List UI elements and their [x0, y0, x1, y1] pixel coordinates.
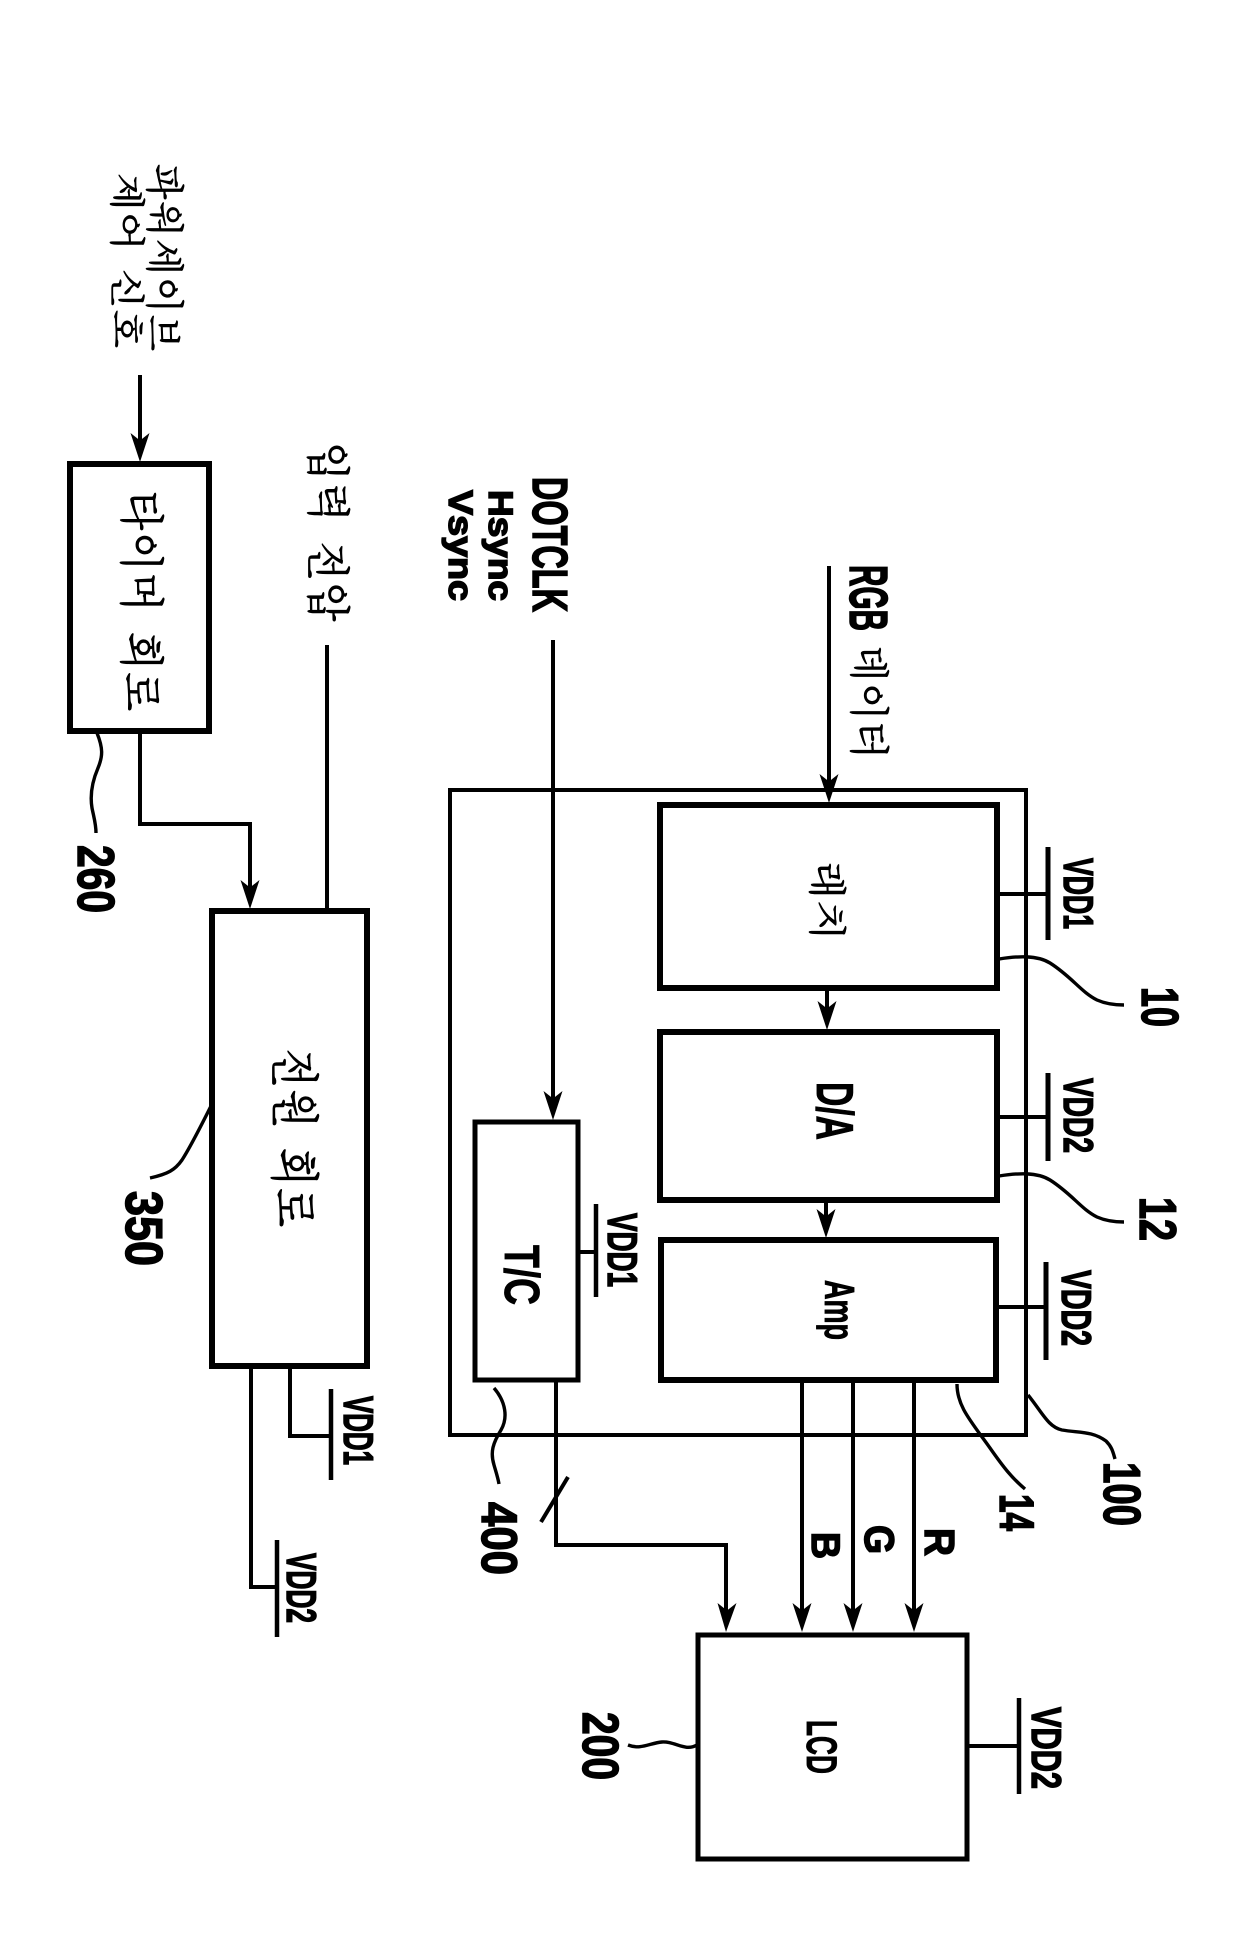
svg-text:VDD1: VDD1 — [1055, 858, 1102, 929]
wire: power save signal arrow into timer — [138, 375, 142, 448]
svg-text:RGB: RGB — [838, 565, 898, 631]
wire: T/C output to LCD — [556, 1380, 726, 1618]
svg-text:LCD: LCD — [797, 1720, 845, 1774]
tc vdd1 wire — [578, 1250, 596, 1254]
amp vdd2 bar — [1044, 1262, 1049, 1360]
amp vdd2 wire — [996, 1305, 1046, 1309]
svg-text:VDD2: VDD2 — [1055, 1078, 1102, 1153]
bus slash on T/C output — [541, 1477, 568, 1522]
leader for label 260 — [91, 733, 101, 833]
wire: R line from Amp to LCD — [912, 1380, 916, 1618]
leader for label 400 — [492, 1388, 505, 1484]
wire: DOTCLK arrow into T/C — [551, 640, 555, 1108]
svg-text:100: 100 — [1092, 1462, 1150, 1526]
text: input voltage label — [307, 446, 350, 621]
wire: B line from Amp to LCD — [800, 1380, 804, 1618]
latch vdd1 bar — [1046, 847, 1051, 940]
svg-text:260: 260 — [66, 845, 124, 913]
svg-text:200: 200 — [572, 1712, 629, 1780]
wire: input voltage into power circuit — [325, 645, 329, 911]
block: timer circuit box 260 — [70, 464, 209, 731]
svg-text:DOTCLK: DOTCLK — [522, 477, 576, 612]
power vdd1 wire — [290, 1366, 329, 1436]
svg-text:Hsync: Hsync — [481, 490, 519, 601]
text: data of RGB label — [850, 648, 889, 753]
leader for label 10 — [999, 957, 1124, 1005]
svg-text:12: 12 — [1128, 1197, 1186, 1241]
svg-text:G: G — [856, 1525, 903, 1554]
wire: D/A to Amp arrow — [824, 1200, 828, 1226]
block: latch box 10 — [660, 805, 997, 988]
wire: timer to power circuit — [140, 731, 250, 896]
wire: G line from Amp to LCD — [851, 1380, 855, 1618]
leader for label 200 — [628, 1742, 697, 1747]
lcd vdd2 wire — [967, 1744, 1017, 1748]
svg-text:400: 400 — [471, 1502, 527, 1575]
svg-text:VDD2: VDD2 — [1023, 1707, 1070, 1789]
power vdd1 bar — [329, 1389, 334, 1480]
wire: RGB data arrow into latch — [827, 566, 831, 790]
tc vdd1 bar — [594, 1204, 599, 1297]
svg-text:VDD2: VDD2 — [1053, 1270, 1100, 1346]
block: driver IC outline box 100 — [450, 790, 1026, 1435]
text: control signal line 2 — [110, 175, 145, 347]
leader for label 100 — [1028, 1395, 1115, 1459]
svg-text:350: 350 — [114, 1191, 172, 1266]
leader for label 350 — [150, 1106, 211, 1178]
text: timer circuit label — [120, 493, 164, 710]
svg-text:VDD1: VDD1 — [335, 1396, 382, 1465]
wire: latch to D/A arrow — [825, 988, 829, 1018]
block: power circuit box 350 — [212, 911, 367, 1366]
block: LCD box 200 — [698, 1635, 967, 1859]
power vdd2 wire — [251, 1366, 275, 1587]
svg-text:B: B — [803, 1532, 847, 1559]
svg-text:14: 14 — [989, 1494, 1042, 1531]
svg-text:VDD1: VDD1 — [599, 1213, 646, 1287]
svg-text:Vsync: Vsync — [441, 490, 479, 601]
da vdd2 wire — [997, 1115, 1048, 1119]
leader for label 14 — [957, 1384, 1025, 1489]
svg-text:10: 10 — [1130, 987, 1188, 1027]
svg-text:T/C: T/C — [494, 1245, 548, 1305]
svg-text:D/A: D/A — [805, 1082, 863, 1140]
block: Amp box 14 — [661, 1240, 996, 1380]
svg-text:Amp: Amp — [816, 1280, 863, 1340]
lcd vdd2 bar — [1017, 1698, 1022, 1794]
leader for label 12 — [999, 1174, 1124, 1222]
power vdd2 bar — [275, 1540, 280, 1637]
da vdd2 bar — [1046, 1073, 1051, 1161]
svg-text:R: R — [916, 1528, 963, 1556]
text: power save line 1 — [146, 165, 184, 350]
block: T/C box 400 — [475, 1122, 578, 1380]
latch vdd1 wire — [997, 892, 1048, 896]
svg-text:VDD2: VDD2 — [278, 1553, 325, 1623]
text: latch label — [809, 864, 846, 934]
text: power circuit label — [271, 1051, 319, 1226]
block: D/A box 12 — [660, 1032, 997, 1200]
